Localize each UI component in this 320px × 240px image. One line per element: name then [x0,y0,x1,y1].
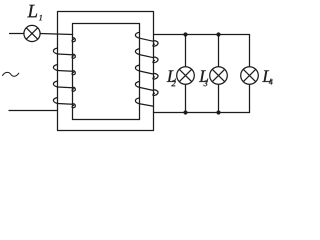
node junction [216,32,220,36]
lamp L2 [177,67,195,85]
primary winding [53,38,75,108]
AC source [3,72,19,76]
wire [40,34,72,35]
secondary winding [135,32,158,106]
wire [9,110,58,112]
wire [154,112,250,114]
label L2 [167,70,176,86]
label L3 [199,70,208,86]
wire [249,35,251,67]
node junction [216,110,220,114]
node junction [183,110,187,114]
node junction [183,32,187,36]
wire [10,33,25,35]
label L4 [262,70,272,84]
transformer T1 core [58,12,154,131]
wire [185,85,187,113]
label L1 [27,5,42,20]
lamp L4 [241,67,259,85]
lamp L1 [24,25,40,41]
wire [154,34,250,36]
wire [185,35,187,67]
wire [218,35,220,67]
wire [218,85,220,113]
lamp L3 [210,67,228,85]
wire [249,85,251,113]
